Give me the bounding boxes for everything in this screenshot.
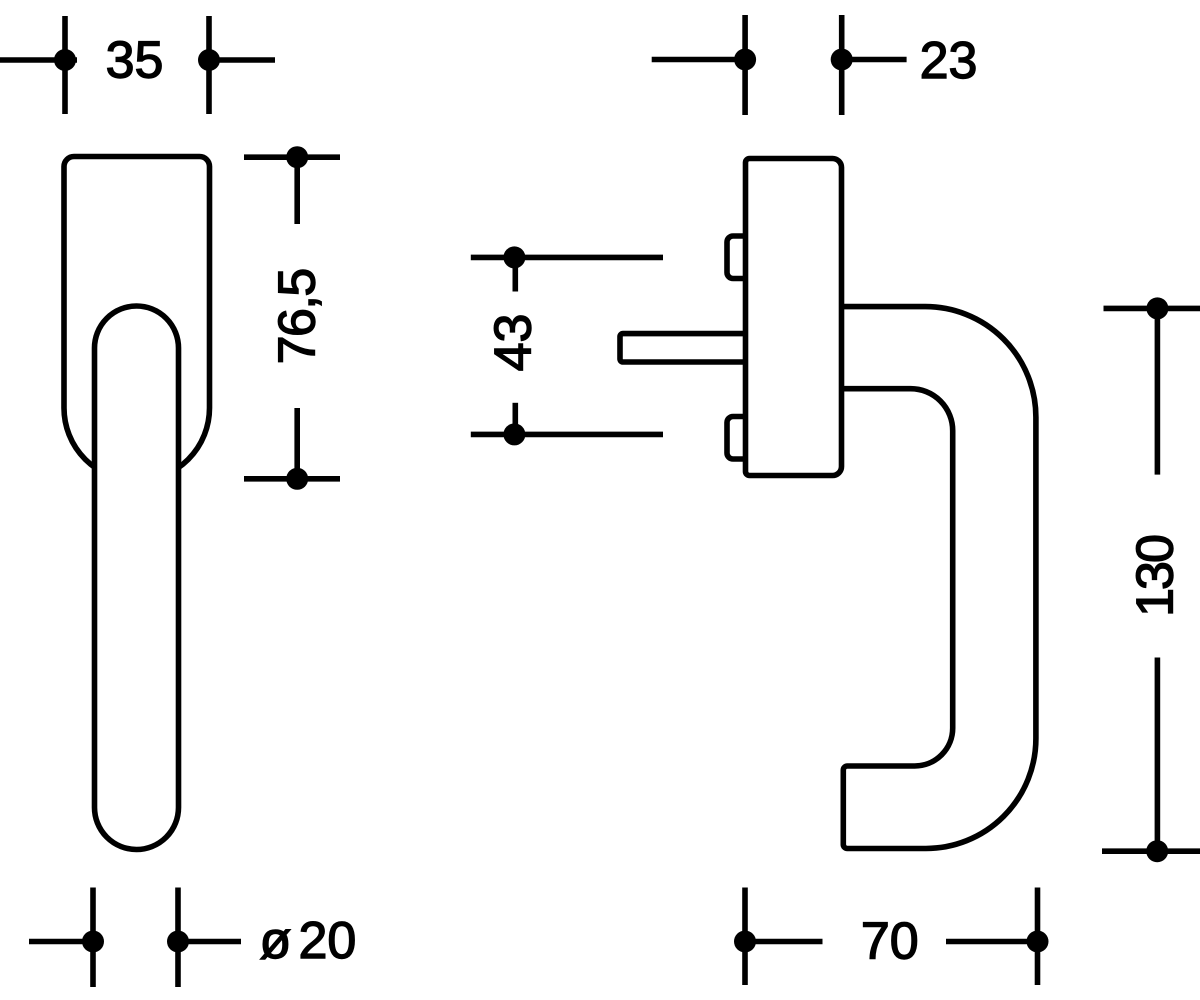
dimension 130: bottom tick [1102,848,1200,854]
handle side view (neck and grip) [840,307,1036,849]
dimension 130: top vertical segment [1155,308,1161,474]
dimension 70: left tick [742,888,748,986]
lower fixing peg [727,417,751,460]
dimension ø20: left tick [90,888,96,988]
svg-text:43: 43 [485,314,543,372]
dimension 76,5: top tick [244,154,340,160]
dimension 76,5: top vertical segment [294,157,300,224]
dimension 76,5: bottom dot [286,468,308,490]
dimension ø20: left dot [82,931,104,953]
dimension 23: left dot [734,49,756,71]
dimension 23: right tick [839,15,845,115]
svg-text:70: 70 [861,913,919,971]
dimension 76,5: top dot [286,146,308,168]
dimension 130: bottom vertical segment [1155,658,1161,852]
dimension 35: left tick [62,16,68,114]
dimension 23: right dot [831,49,853,71]
dimension 23: right horizontal segment [842,57,907,63]
dimension 70: left horizontal segment [745,939,823,945]
svg-text:76,5: 76,5 [269,269,327,364]
dimension 23: left tick [742,15,748,115]
dimension ø20: left horizontal segment [29,939,93,945]
dimension 70: right tick [1035,888,1041,986]
handle loop (front view grip, ø20 tube) [95,306,179,850]
dimension 43: top vertical segment [512,257,518,291]
dimension ø20: right tick [175,888,181,988]
dimension 43: bottom vertical segment [512,403,518,435]
svg-text:ø: ø [260,912,292,970]
svg-text:35: 35 [106,32,164,90]
dimension 130: top tick [1104,306,1200,312]
dimension 35: left horizontal segment [0,57,77,63]
dimension 130: top dot [1146,297,1168,319]
svg-text:23: 23 [920,32,978,90]
backplate (side view) [746,159,842,476]
spindle (square shaft) [620,334,747,362]
dimension 35: left dot [54,49,76,71]
upper fixing peg [727,236,751,279]
dimension 43: bottom extension line [471,432,663,438]
dimension 43: bottom dot [503,423,525,445]
dimension 130: bottom dot [1146,840,1168,862]
dimension 43: top extension line [471,255,663,261]
dimension 70: left dot [734,931,756,953]
svg-text:130: 130 [1127,536,1185,617]
dimension 35: right horizontal segment [209,57,275,63]
dimension 70: right horizontal segment [946,939,1038,945]
svg-text:20: 20 [299,912,357,970]
dimension 23: left horizontal segment [652,57,745,63]
dimension 43: top dot [503,246,525,268]
dimension 35: right tick [206,16,212,114]
dimension 70: right dot [1027,931,1049,953]
escutcheon (rose plate, front view) [64,157,210,481]
dimension ø20: right dot [167,931,189,953]
dimension 76,5: bottom vertical segment [294,408,300,479]
dimension 76,5: bottom tick [244,476,340,482]
dimension 35: right dot [198,49,220,71]
dimension ø20: right horizontal segment [178,939,241,945]
